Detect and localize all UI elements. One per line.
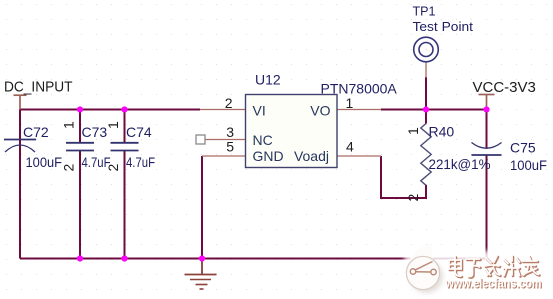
watermark chinese glyphs [449, 256, 540, 278]
capacitor C74 [105, 121, 155, 172]
TP1 rings [414, 37, 439, 62]
VCC-3V3 bar [479, 94, 495, 96]
pin of TP1 [425, 61, 427, 78]
R40 zigzag [421, 124, 431, 186]
no-connect square on pin 3 [196, 135, 205, 144]
ground stem [201, 259, 203, 275]
pin 3 of U12 [205, 139, 246, 141]
wire GND pin5 down to bus [201, 156, 203, 259]
svg-text:GND: GND [253, 148, 284, 164]
DC_INPUT stub [19, 95, 21, 109]
svg-text:221k@1%: 221k@1% [429, 156, 491, 172]
svg-text:1: 1 [105, 121, 121, 129]
watermark backdrop wash [404, 251, 553, 293]
pin 5 of U12 [202, 155, 246, 157]
regulator module U12 PTN78000A [225, 72, 398, 168]
C75 straight plate [472, 154, 502, 156]
svg-text:TP1: TP1 [413, 4, 436, 19]
svg-text:2: 2 [225, 95, 233, 111]
wire TP1 to bus [425, 77, 427, 110]
ground bars [185, 274, 217, 276]
svg-text:VI: VI [253, 103, 266, 119]
svg-text:NC: NC [253, 132, 273, 148]
DC_INPUT bar [14, 94, 27, 96]
svg-text:C72: C72 [23, 124, 49, 140]
svg-text:U12: U12 [255, 72, 281, 88]
svg-text:1: 1 [346, 95, 354, 111]
ground [185, 259, 217, 290]
C72 top plate [4, 139, 36, 141]
svg-text:4.7uF: 4.7uF [126, 154, 155, 170]
capacitor C72 [4, 124, 62, 170]
junction C73 top [77, 106, 83, 112]
pin 4 of U12 [337, 155, 381, 157]
wire C75 vertical [486, 110, 488, 149]
svg-text:2: 2 [61, 164, 77, 172]
wire VO output to VCC [381, 109, 487, 111]
svg-text:Voadj: Voadj [294, 148, 329, 164]
junction C73 bottom [77, 255, 83, 261]
junction ground [199, 255, 205, 261]
wire left vertical through C72 [19, 110, 21, 259]
power port DC_INPUT [4, 79, 73, 110]
svg-text:www.elecfans.com: www.elecfans.com [445, 277, 542, 291]
watermark logo [406, 244, 443, 294]
svg-text:100uF: 100uF [26, 154, 63, 170]
svg-text:C73: C73 [82, 124, 108, 140]
wire C73 vertical [79, 110, 81, 143]
svg-text:4: 4 [346, 139, 354, 155]
C74 plates [111, 142, 139, 144]
svg-text:DC_INPUT: DC_INPUT [4, 79, 73, 96]
svg-text:2: 2 [405, 194, 421, 202]
C72 curved plate [5, 145, 35, 152]
svg-text:1: 1 [61, 121, 77, 129]
svg-text:100uF: 100uF [510, 157, 547, 173]
svg-text:PTN78000A: PTN78000A [321, 81, 398, 97]
svg-text:VO: VO [310, 103, 330, 119]
svg-text:1: 1 [405, 127, 421, 135]
junction TP1/R40 [423, 106, 429, 112]
svg-text:5: 5 [226, 139, 234, 155]
junction VCC/C75 [483, 106, 489, 112]
junction C74 top [121, 106, 127, 112]
capacitor C75 [472, 140, 548, 174]
svg-text:C75: C75 [510, 140, 536, 156]
svg-text:VCC-3V3: VCC-3V3 [473, 79, 536, 96]
wire top bus DC_INPUT to U12 pin2 [20, 109, 200, 111]
svg-text:C74: C74 [126, 124, 152, 140]
U12 body [246, 95, 338, 168]
wire bottom ground bus [20, 258, 487, 260]
pin 2 of U12 [200, 109, 246, 111]
pin 1 of U12 [337, 109, 381, 111]
svg-text:2: 2 [105, 164, 121, 172]
VCC-3V3 stub [486, 95, 488, 110]
svg-text:Test Point: Test Point [413, 19, 474, 34]
resistor R40 [405, 124, 491, 202]
wire Voadj return [381, 156, 426, 198]
power port VCC-3V3 [473, 79, 536, 110]
wire R40 top [425, 110, 427, 124]
test point TP1 [413, 4, 474, 62]
svg-text:R40: R40 [429, 124, 455, 140]
C75 curved plate [472, 143, 502, 149]
junction C74 bottom [121, 255, 127, 261]
wire C74 vertical [124, 110, 126, 143]
C73 plates [66, 142, 94, 144]
capacitor C73 [61, 121, 111, 172]
